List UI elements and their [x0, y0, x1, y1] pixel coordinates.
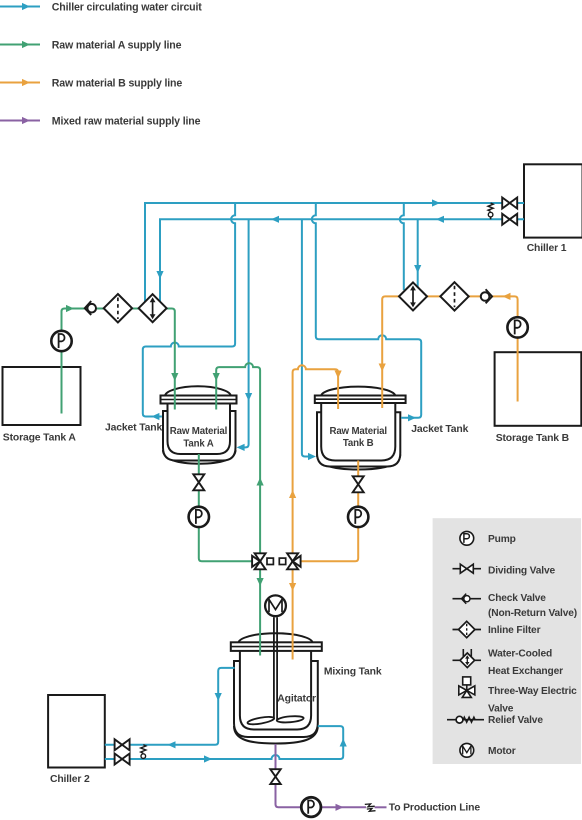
wire mixed material: mixing tank to production line — [276, 744, 367, 807]
wire chiller return header (upper) — [145, 203, 524, 302]
valve tank B bottom — [353, 476, 364, 492]
wire tank B jacket return right — [312, 203, 421, 418]
arrow HX-B supply down — [414, 265, 421, 273]
motor M mixing tank — [265, 595, 286, 616]
svg-text:Raw material A supply line: Raw material A supply line — [52, 39, 182, 51]
legend three-way electric valve — [459, 677, 577, 715]
storage tank B box — [495, 352, 582, 444]
relief valve chiller 2 — [141, 745, 146, 759]
valve chiller 2 upper — [115, 739, 130, 750]
arrow supply up into mixing jacket — [340, 739, 347, 747]
key line mixed raw material supply line — [0, 115, 201, 127]
water-cooled heat exchanger A — [139, 294, 167, 322]
arrowheads purple — [336, 804, 344, 811]
check valve B — [481, 289, 492, 303]
valve mixing tank bottom — [270, 769, 280, 784]
line break squiggle to production line — [365, 804, 376, 811]
arrow return header toward chiller 1 — [432, 199, 440, 206]
pump P storage A — [51, 331, 71, 351]
wire heat exchanger A return stub — [144, 203, 146, 302]
legend inline filter — [453, 621, 541, 637]
arrowheads cyan — [151, 199, 444, 762]
svg-text:Pump: Pump — [488, 534, 516, 545]
legend water-cooled heat exchanger — [453, 648, 564, 677]
arrowheads green — [66, 305, 264, 586]
key line chiller circulating water circuit — [0, 1, 202, 13]
svg-text:Tank B: Tank B — [343, 438, 374, 449]
wire tank A bottom to pump to 3-way valve — [199, 454, 253, 561]
wire tank B jacket feed left — [302, 219, 308, 456]
chiller 1 box — [524, 164, 582, 254]
svg-text:Relief Valve: Relief Valve — [488, 715, 543, 726]
arrow out of tank B jacket right — [408, 414, 416, 421]
arrow into mixing tank green down — [257, 578, 264, 586]
svg-text:To Production Line: To Production Line — [389, 803, 481, 814]
svg-text:Dividing Valve: Dividing Valve — [488, 566, 555, 577]
svg-text:Three-Way Electric: Three-Way Electric — [488, 686, 577, 697]
svg-text:Heat Exchanger: Heat Exchanger — [488, 666, 563, 677]
svg-text:Tank A: Tank A — [183, 438, 213, 449]
svg-text:Chiller circulating water circ: Chiller circulating water circuit — [52, 1, 203, 13]
legend pump — [460, 531, 516, 545]
pump P tank A bottom — [189, 507, 209, 527]
svg-text:Storage Tank A: Storage Tank A — [3, 433, 77, 444]
arrow mixed supply right — [336, 804, 344, 811]
svg-text:Chiller 2: Chiller 2 — [50, 774, 90, 785]
arrow into tank A right port down — [213, 373, 220, 381]
wire after line break symbol — [375, 806, 387, 808]
svg-text:Raw Material: Raw Material — [170, 426, 227, 437]
svg-text:Jacket Tank: Jacket Tank — [105, 422, 162, 433]
wire mixing tank jacket return to chiller 2 — [105, 668, 235, 745]
key line raw material A supply line — [0, 39, 182, 51]
svg-text:Chiller 1: Chiller 1 — [527, 243, 567, 254]
wire heat exchanger B supply stub — [417, 219, 419, 287]
arrow chiller 2 supply right — [204, 755, 212, 762]
wire chiller 2 supply to mixing tank jacket — [105, 726, 343, 759]
inline filter B — [440, 282, 468, 310]
svg-text:Check Valve: Check Valve — [488, 593, 546, 604]
wire tank B bottom to pump to 3-way valve — [300, 461, 359, 562]
check valve A — [85, 301, 96, 315]
wire tank A jacket feed left — [143, 203, 235, 417]
legend panel background — [433, 518, 581, 764]
valve chiller 2 lower — [115, 754, 130, 765]
arrow into tank B right port down — [379, 364, 386, 372]
arrow into mixing tank orange down — [289, 583, 296, 591]
arrow supply B left after pump — [503, 293, 511, 300]
arrowheads orange — [289, 293, 511, 591]
wire raw material B supply: storage tank B to tank B — [382, 296, 517, 408]
svg-text:Mixed raw material supply line: Mixed raw material supply line — [52, 115, 201, 127]
raw material tank A vessel — [161, 386, 237, 463]
wire raw material A supply: storage tank A to tank A — [62, 309, 175, 414]
arrow supply header leftward 2 — [436, 216, 444, 223]
svg-text:Mixing Tank: Mixing Tank — [324, 667, 382, 678]
wire chiller supply header (lower) — [160, 219, 524, 302]
svg-text:Water-Cooled: Water-Cooled — [488, 648, 552, 659]
chiller 2 box — [48, 695, 105, 785]
relief valve chiller 1 — [488, 203, 493, 219]
svg-text:Agitator: Agitator — [277, 694, 316, 705]
three-way electric valve B — [279, 553, 300, 569]
arrow into tank B jacket left — [308, 453, 316, 460]
wire tank A jacket feed right — [244, 219, 249, 447]
arrow chiller 2 return down — [215, 693, 222, 701]
arrow recirculation A up — [257, 478, 264, 486]
arrow tank A right feed down — [245, 393, 252, 401]
PIPES — [105, 203, 524, 759]
agitator propeller — [247, 715, 304, 726]
mixing tank vessel — [231, 633, 382, 743]
arrow recirculation B up — [289, 490, 296, 498]
storage tank A box — [3, 367, 81, 444]
legend dividing valve — [453, 564, 556, 576]
arrow into tank B left port down — [335, 371, 342, 379]
arrow out of tank A jacket left — [151, 413, 159, 420]
key line raw material B supply line — [0, 77, 182, 89]
valve tank A bottom — [193, 474, 204, 490]
pump P production line — [301, 797, 321, 817]
svg-text:Inline Filter: Inline Filter — [488, 625, 541, 636]
wire 3-way valve B to mixing tank — [292, 570, 294, 660]
pump P storage B — [507, 317, 527, 337]
svg-text:Valve: Valve — [488, 703, 514, 714]
valve chiller 1 upper — [502, 198, 517, 209]
wire tank A recirculation from 3-way valve — [216, 363, 260, 552]
svg-text:Jacket Tank: Jacket Tank — [411, 424, 468, 435]
wire 3-way valve A to mixing tank — [259, 570, 261, 656]
arrow into chiller 2 — [168, 741, 176, 748]
svg-text:Storage Tank B: Storage Tank B — [496, 433, 570, 444]
arrow supply A right after pump — [66, 305, 74, 312]
wire tank B recirculation from 3-way valve — [293, 365, 339, 552]
pump P tank B bottom — [348, 507, 368, 527]
three-way electric valve A — [252, 553, 273, 569]
arrow HX-A supply down — [156, 271, 163, 279]
svg-text:Raw material B supply line: Raw material B supply line — [52, 77, 183, 89]
arrow supply header leftward 1 — [271, 216, 279, 223]
wire heat exchanger B return stub — [400, 203, 404, 290]
agitator shaft — [274, 617, 277, 719]
svg-text:Raw Material: Raw Material — [329, 426, 386, 437]
legend motor — [460, 743, 516, 757]
arrow into tank A jacket right — [237, 444, 245, 451]
inline filter A — [104, 294, 132, 322]
water-cooled heat exchanger B — [399, 282, 427, 310]
valve chiller 1 lower — [502, 214, 517, 225]
arrow into tank A left port down — [171, 373, 178, 381]
svg-text:(Non-Return Valve): (Non-Return Valve) — [488, 608, 577, 619]
legend relief valve — [447, 715, 543, 726]
svg-text:Motor: Motor — [488, 746, 516, 757]
legend check valve — [453, 593, 578, 619]
raw material tank B vessel — [315, 387, 406, 470]
